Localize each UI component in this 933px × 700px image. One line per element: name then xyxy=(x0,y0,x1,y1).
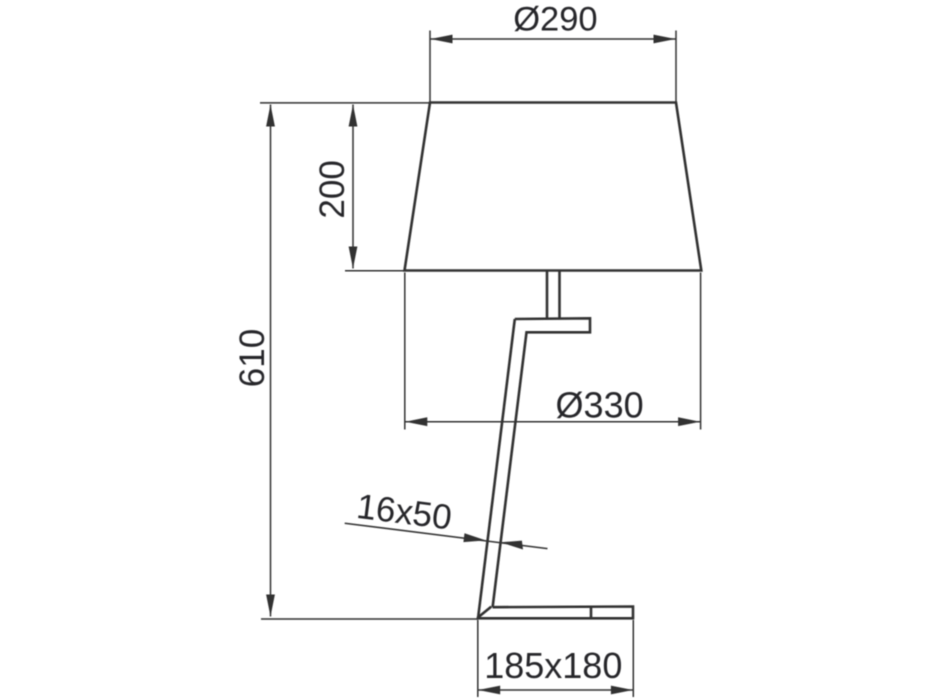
svg-text:200: 200 xyxy=(313,160,352,218)
svg-text:Ø290: Ø290 xyxy=(513,0,597,38)
svg-text:610: 610 xyxy=(233,329,272,387)
svg-text:185x180: 185x180 xyxy=(484,645,622,686)
svg-text:Ø330: Ø330 xyxy=(556,385,644,426)
